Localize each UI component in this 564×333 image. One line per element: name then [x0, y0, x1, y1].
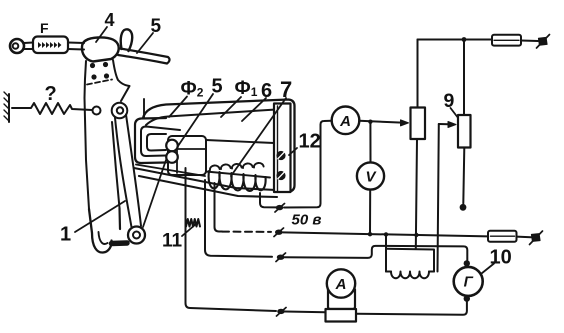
svg-text:1: 1 — [60, 224, 71, 246]
svg-text:A: A — [339, 113, 351, 130]
svg-text:F: F — [40, 20, 49, 36]
svg-text:10: 10 — [490, 247, 512, 269]
svg-text:4: 4 — [105, 10, 115, 30]
svg-text:A: A — [335, 276, 347, 293]
svg-text:Ф1: Ф1 — [235, 78, 258, 99]
svg-text:9: 9 — [444, 90, 455, 112]
svg-text:11: 11 — [162, 231, 183, 252]
svg-text:6: 6 — [261, 80, 272, 102]
svg-text:?: ? — [45, 83, 57, 105]
svg-text:Г: Г — [464, 274, 474, 291]
svg-text:12: 12 — [299, 131, 321, 153]
svg-text:5: 5 — [151, 16, 162, 37]
svg-text:5: 5 — [212, 76, 223, 98]
svg-text:Ф2: Ф2 — [181, 79, 204, 100]
svg-text:7: 7 — [280, 77, 292, 102]
svg-text:50 в: 50 в — [292, 212, 322, 229]
